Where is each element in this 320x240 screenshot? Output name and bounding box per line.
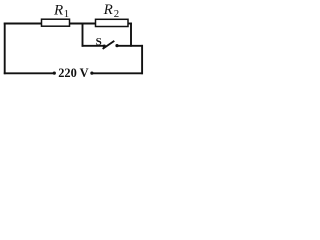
label: switch S reference: [96, 36, 102, 48]
svg-text:1: 1: [64, 8, 69, 20]
switch S right contact dot: [115, 44, 118, 47]
wire: vertical at parallel-section right (R2 right leg): [130, 23, 132, 47]
wire: stub from R2 right to corner: [128, 23, 132, 25]
switch S left contact dot: [103, 45, 106, 48]
svg-text:R: R: [103, 2, 113, 18]
label: 220 V supply value: [58, 66, 88, 80]
svg-text:2: 2: [114, 8, 119, 20]
wire: right vertical rail: [141, 45, 143, 74]
node: left supply terminal dot: [53, 72, 56, 75]
node: right supply terminal dot: [90, 72, 93, 75]
resistor R1 body: [42, 19, 70, 26]
wire: top-left horizontal from left rail to R1: [4, 23, 42, 25]
wire: switch branch right segment: [118, 45, 143, 47]
wire: left vertical rail: [4, 23, 6, 75]
svg-text:S: S: [96, 36, 102, 48]
switch S blade: [103, 41, 115, 49]
svg-text:R: R: [53, 3, 63, 19]
wire: switch branch left segment: [82, 45, 104, 47]
wire: junction vertical at parallel-section left: [82, 23, 84, 47]
label: resistor R1 reference: [53, 3, 69, 20]
resistor R2 body: [96, 19, 129, 26]
wire: between R1 and R2: [69, 23, 96, 25]
label: resistor R2 reference: [103, 2, 120, 20]
wire: bottom-left horizontal to battery terminal: [4, 72, 53, 74]
wire: bottom-right horizontal from terminal to right rail: [93, 72, 143, 74]
svg-text:220 V: 220 V: [58, 66, 88, 80]
